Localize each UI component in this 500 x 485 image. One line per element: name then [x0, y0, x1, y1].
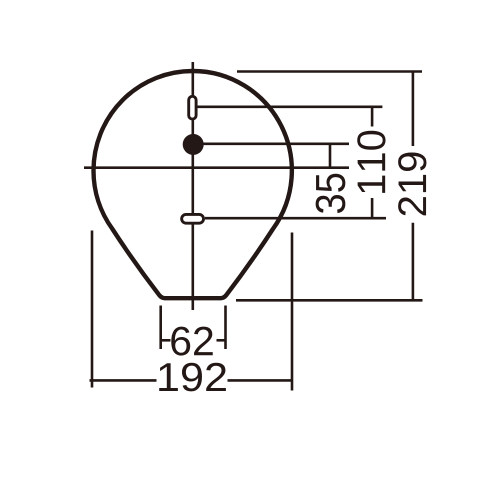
horizontal centerline — [84, 166, 349, 169]
192 extension line right — [291, 233, 294, 391]
dimension line 35 — [329, 144, 332, 168]
horizontal slot extension line — [205, 217, 386, 220]
bottom extension line — [236, 299, 423, 302]
horizontal slot (pill) — [182, 214, 204, 223]
62 extension line left — [159, 306, 162, 350]
slot extension line — [197, 106, 382, 109]
62 extension line right — [224, 306, 227, 350]
dimension line 62 right dash — [217, 339, 227, 342]
dimension line 192 left — [90, 379, 157, 382]
mounting slot (vertical pill) — [189, 96, 196, 119]
top extension line — [237, 70, 422, 73]
label 62 — [171, 327, 212, 356]
dimension line 62 left dash — [160, 339, 171, 342]
vertical centerline — [192, 62, 195, 310]
fixture outline — [93, 71, 291, 298]
dot extension line — [204, 143, 350, 146]
label 219 — [398, 153, 426, 216]
mounting dot — [183, 134, 204, 155]
label 110 — [357, 131, 385, 193]
label 35 — [316, 174, 346, 213]
dimension line 110 lower — [371, 198, 374, 218]
label 192 — [159, 363, 226, 392]
192 extension line left — [91, 231, 94, 388]
dimension line 110 upper — [371, 107, 374, 127]
dimension line 219 upper — [412, 72, 415, 147]
dimension line 192 right — [228, 379, 293, 382]
dimension line 219 lower — [412, 223, 415, 300]
